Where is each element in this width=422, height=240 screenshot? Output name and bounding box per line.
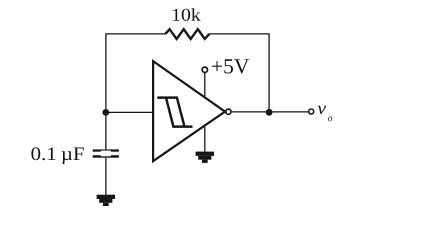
op-amp U1 triangle bbox=[153, 61, 225, 161]
node input junction bbox=[102, 109, 109, 116]
label vo bbox=[318, 106, 326, 114]
capacitor C1 bbox=[93, 149, 119, 157]
wire capacitor to ground bbox=[105, 158, 107, 195]
output bubble bbox=[226, 109, 231, 114]
label 0.1 uF bbox=[31, 147, 83, 164]
wire resistor to output node bbox=[209, 34, 269, 112]
node output junction bbox=[266, 109, 273, 116]
wire +5V stem bbox=[204, 72, 206, 97]
ground under capacitor bbox=[97, 195, 115, 206]
ground under op-amp bbox=[196, 152, 214, 163]
wire output bbox=[232, 111, 308, 113]
hysteresis symbol bbox=[157, 98, 192, 127]
wire op-amp ground stem bbox=[204, 126, 206, 152]
terminal vo circle bbox=[309, 109, 314, 114]
resistor R1 bbox=[165, 29, 209, 39]
label 10k bbox=[173, 8, 201, 21]
wire feedback left: capacitor node up and over to resistor bbox=[106, 34, 165, 149]
label +5V bbox=[212, 59, 249, 73]
terminal +5V circle bbox=[202, 67, 207, 72]
wire input node to op-amp bbox=[106, 111, 153, 113]
